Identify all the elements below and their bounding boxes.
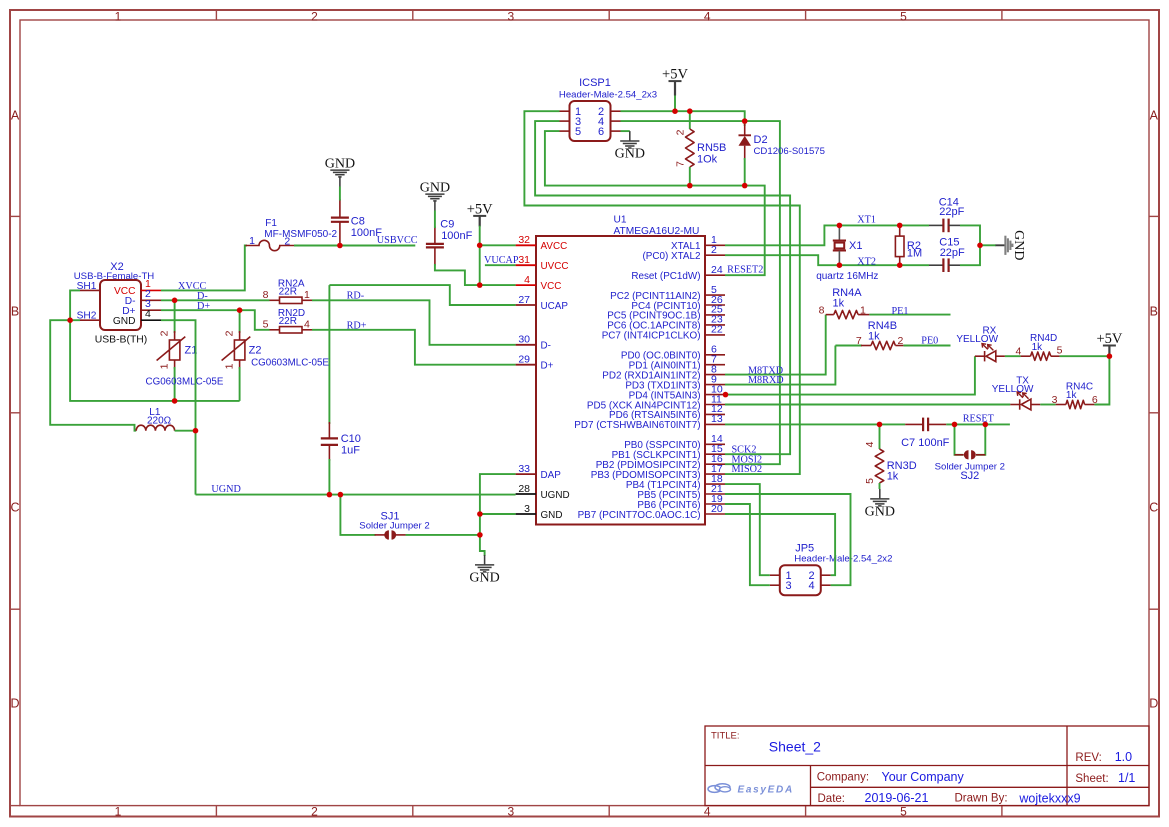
wire shield down to varistor bottoms <box>70 320 240 401</box>
wire XTAL1 to XT1 <box>725 225 929 245</box>
svg-text:D: D <box>1149 697 1158 711</box>
capacitor C15 22pF <box>929 236 965 272</box>
connector X2 USB-B-Female-TH body <box>100 280 141 330</box>
wire M8RXD net <box>725 346 835 385</box>
svg-text:2: 2 <box>224 330 236 336</box>
svg-text:MF-MSMF050-2: MF-MSMF050-2 <box>264 229 337 240</box>
U1 pin 18 PB4 (T1PCINT4) <box>626 473 725 491</box>
wire XT right bracket <box>960 225 980 265</box>
wire XTAL2 to XT2 <box>725 255 929 265</box>
svg-text:4: 4 <box>1015 345 1021 357</box>
svg-text:2: 2 <box>159 330 171 336</box>
ground GND at ICSP pin6 <box>620 131 639 148</box>
svg-text:USB-B(TH): USB-B(TH) <box>95 335 148 346</box>
svg-text:5: 5 <box>900 804 907 818</box>
svg-text:2: 2 <box>898 335 904 347</box>
wire PD5 to TX led <box>725 404 1010 406</box>
svg-text:quartz 16MHz: quartz 16MHz <box>816 271 878 282</box>
svg-text:3: 3 <box>524 503 530 515</box>
svg-text:1: 1 <box>115 10 122 24</box>
U1 pin 1 XTAL1 <box>671 234 725 252</box>
svg-text:2: 2 <box>311 10 318 24</box>
wire SJ1 to GND pin <box>406 534 480 536</box>
wire +5V down to RN4C <box>1094 356 1109 404</box>
X2 pin 1 VCC <box>114 278 161 297</box>
svg-text:A: A <box>1150 109 1159 123</box>
node D+/Z2 junction <box>237 307 243 313</box>
title block frame <box>705 726 1149 806</box>
svg-text:Sheet_2: Sheet_2 <box>769 739 821 755</box>
wire ICSP1 pin1 MISO loop <box>524 111 799 474</box>
wire RESET net right of C7 <box>946 423 1010 425</box>
U1 pin 30 D- <box>516 334 551 352</box>
svg-text:ATMEGA16U2-MU: ATMEGA16U2-MU <box>614 226 700 237</box>
node UGND/SJ1 junction <box>338 492 344 498</box>
svg-text:C8: C8 <box>351 216 365 228</box>
wire AVCC <box>480 244 516 246</box>
wire M8TXD net <box>725 315 826 375</box>
svg-text:27: 27 <box>518 294 530 306</box>
svg-text:6: 6 <box>1092 394 1098 406</box>
svg-text:4: 4 <box>704 804 711 818</box>
svg-text:VUCAP: VUCAP <box>484 255 519 266</box>
U1 pin 17 PB3 (PDOMISOPCINT3) <box>591 463 725 481</box>
svg-text:3: 3 <box>508 10 515 24</box>
svg-text:A: A <box>11 109 20 123</box>
U1 pin 26 PC4 (PCINT10) <box>631 294 725 312</box>
X2 pin 3 D+ <box>122 298 161 317</box>
wire C8 to GND <box>339 187 341 201</box>
capacitor C9 100nF <box>426 219 473 266</box>
resistor RN5B 10k <box>675 111 727 185</box>
U1 pin 25 PC5 (PCINT9OC.1B) <box>607 304 725 322</box>
svg-text:8: 8 <box>819 304 825 316</box>
svg-text:5: 5 <box>900 10 907 24</box>
LED RX YELLOW <box>956 326 1005 362</box>
svg-text:8: 8 <box>263 289 269 301</box>
wire UVCC stub <box>485 264 516 266</box>
svg-text:22pF: 22pF <box>939 206 964 218</box>
svg-text:MISO2: MISO2 <box>732 464 763 475</box>
node +5V RN4D junction <box>1107 353 1113 359</box>
svg-text:UVCC: UVCC <box>541 261 569 272</box>
node R2 bottom junction <box>897 262 903 268</box>
JP5 pin 2 <box>809 570 831 582</box>
ICSP1 pin 6 <box>598 126 621 138</box>
svg-text:100nF: 100nF <box>441 230 472 242</box>
wire ICSP1 pin4 MOSI row <box>621 120 745 122</box>
svg-text:4: 4 <box>809 580 815 592</box>
svg-text:USBVCC: USBVCC <box>377 235 418 246</box>
crystal X1 quartz 16MHz <box>816 225 878 282</box>
svg-text:RN5B: RN5B <box>697 142 726 154</box>
wire ICSP1 pin3 SCK loop <box>535 121 790 454</box>
svg-text:X1: X1 <box>849 240 862 252</box>
svg-text:2: 2 <box>711 244 717 256</box>
node SJ1 right junction <box>477 532 483 538</box>
svg-text:3: 3 <box>508 804 515 818</box>
U1 pin 29 D+ <box>516 354 554 372</box>
svg-text:1Ok: 1Ok <box>697 154 718 166</box>
svg-text:4: 4 <box>864 441 876 447</box>
svg-text:220Ω: 220Ω <box>147 416 172 427</box>
wire UGND net <box>196 494 516 496</box>
svg-text:29: 29 <box>518 354 530 366</box>
svg-text:1k: 1k <box>833 298 845 310</box>
IC U1 ATMEGA16U2-MU body <box>536 236 705 525</box>
svg-text:PD7 (CTSHWBAIN6T0INT7): PD7 (CTSHWBAIN6T0INT7) <box>574 420 700 431</box>
ground GND above C9 <box>425 194 444 210</box>
svg-text:GND: GND <box>615 146 645 161</box>
svg-text:RESET2: RESET2 <box>727 264 763 275</box>
svg-text:GND: GND <box>1011 230 1026 260</box>
wire MOSI to PB2 <box>725 121 780 464</box>
node L1 junction <box>193 428 199 434</box>
svg-text:1k: 1k <box>887 470 899 482</box>
node RN5B bottom RESET junction <box>687 183 693 189</box>
svg-text:2019-06-21: 2019-06-21 <box>865 791 929 805</box>
svg-text:C7 100nF: C7 100nF <box>901 437 950 449</box>
svg-text:YELLOW: YELLOW <box>992 384 1034 395</box>
wire X2 GND to L1/UGND <box>161 320 196 494</box>
wire C9 to GND <box>434 211 436 229</box>
U1 pin 24 Reset (PC1dW) <box>631 264 725 282</box>
wire PB7 to JP5 pin2 <box>725 514 835 575</box>
node X1 bottom junction <box>837 262 843 268</box>
svg-text:B: B <box>11 305 19 319</box>
wire PD4 to RX led <box>725 356 975 394</box>
resistor network RN2D 22R <box>263 308 312 333</box>
svg-text:28: 28 <box>518 483 530 495</box>
svg-text:D: D <box>10 697 19 711</box>
svg-text:2: 2 <box>311 804 318 818</box>
svg-text:24: 24 <box>711 264 723 276</box>
ICSP1 pin 5 <box>560 126 582 138</box>
svg-text:AVCC: AVCC <box>541 241 568 252</box>
svg-text:5: 5 <box>1057 345 1063 357</box>
wire PB6 to JP5 pin3 <box>725 504 770 585</box>
U1 pin 2 (PC0) XTAL2 <box>643 244 726 262</box>
node RN5B top junction <box>687 108 693 114</box>
svg-text:C: C <box>1149 501 1158 515</box>
node RN3D junction <box>877 422 883 428</box>
U1 pin 28 UGND <box>516 483 570 501</box>
resistor RN3D 1k <box>864 424 917 489</box>
svg-text:F1: F1 <box>265 218 277 229</box>
wire RN4D to +5V <box>1060 355 1110 357</box>
EasyEDA logo <box>708 784 794 796</box>
svg-text:1k: 1k <box>868 330 880 342</box>
resistor network RN2A 22R <box>263 279 312 304</box>
X2 pin 2 D- <box>125 288 161 307</box>
capacitor C10 1uF <box>321 422 361 461</box>
svg-text:TITLE:: TITLE: <box>711 731 740 742</box>
svg-text:DAP: DAP <box>541 470 562 481</box>
svg-text:Sheet:: Sheet: <box>1075 773 1108 785</box>
wire DAP to GND net vertical <box>480 474 516 556</box>
U1 pin 7 PD1 (AIN0INT1) <box>629 354 725 372</box>
svg-text:2: 2 <box>284 235 290 247</box>
svg-text:1M: 1M <box>907 248 922 260</box>
svg-text:SJ2: SJ2 <box>960 470 979 482</box>
svg-text:D-: D- <box>541 341 551 352</box>
U1 pin 32 AVCC <box>516 234 568 252</box>
node Z1 bottom junction <box>172 398 178 404</box>
solder jumper SJ1 <box>359 510 429 539</box>
wire +5V stem to row <box>674 96 676 112</box>
svg-text:UCAP: UCAP <box>541 301 569 312</box>
svg-text:4: 4 <box>145 308 151 320</box>
U1 pin 10 PD4 (INT5AIN3) <box>629 383 725 401</box>
wire RD- net <box>312 300 516 345</box>
wire PD7 DTR net <box>725 423 905 425</box>
U1 pin 5 PC2 (PCINT11AIN2) <box>610 284 725 302</box>
U1 pin 4 VCC <box>516 274 562 292</box>
svg-text:(PC0) XTAL2: (PC0) XTAL2 <box>643 251 701 262</box>
wire PE0 net <box>903 345 950 347</box>
fuse F1 MF-MSMF050-2 <box>245 218 337 250</box>
wire GND pin <box>480 513 516 515</box>
svg-text:D+: D+ <box>197 301 210 312</box>
svg-text:1k: 1k <box>1066 390 1078 401</box>
ICSP1 pin 1 <box>560 106 582 118</box>
svg-text:U1: U1 <box>614 215 627 226</box>
node +5V/ICSP pin2 junction <box>672 108 678 114</box>
svg-text:1: 1 <box>224 363 236 369</box>
svg-text:33: 33 <box>518 463 530 475</box>
JP5 pin 3 <box>770 580 792 592</box>
X2 pin 4 GND <box>113 308 161 327</box>
ground GND below SJ1 <box>475 555 494 572</box>
wire +5V to AVCC and VCC <box>479 226 481 285</box>
svg-text:1: 1 <box>860 304 866 316</box>
wire bracket to GND <box>980 244 996 246</box>
svg-text:22R: 22R <box>279 287 297 298</box>
U1 pin 33 DAP <box>516 463 562 481</box>
resistor RN4C 1k <box>1040 381 1098 408</box>
svg-text:CG0603MLC-05E: CG0603MLC-05E <box>251 358 329 369</box>
wire D- net <box>161 299 270 301</box>
svg-text:Company:: Company: <box>817 772 869 784</box>
svg-text:YELLOW: YELLOW <box>956 334 998 345</box>
ICSP1 pin 2 <box>598 106 621 118</box>
node D2 bottom RESET junction <box>742 183 748 189</box>
JP5 pin 1 <box>770 570 792 582</box>
wire XVCC net <box>161 246 247 291</box>
svg-text:1: 1 <box>304 289 310 301</box>
svg-text:7: 7 <box>856 335 862 347</box>
svg-text:wojtekxxx9: wojtekxxx9 <box>1018 791 1080 805</box>
svg-text:4: 4 <box>524 274 530 286</box>
U1 pin 21 PB5 (PCINT5) <box>637 483 725 501</box>
U1 pin 27 UCAP <box>516 294 569 312</box>
U1 pin 20 PB7 (PCINT7OC.0AOC.1C) <box>578 503 725 521</box>
U1 pin 19 PB6 (PCINT6) <box>637 493 725 511</box>
inductor L1 220 ohm <box>136 407 174 431</box>
node UGND/C10 junction <box>327 492 333 498</box>
node SJ2 right junction <box>983 422 989 428</box>
svg-text:Date:: Date: <box>818 793 846 805</box>
svg-text:UGND: UGND <box>541 490 570 501</box>
wire shield to L1 left <box>50 320 136 431</box>
node +5V/AVCC junction <box>477 243 483 249</box>
svg-text:VCC: VCC <box>541 281 562 292</box>
svg-text:RD-: RD- <box>347 291 365 302</box>
svg-text:Reset (PC1dW): Reset (PC1dW) <box>631 271 700 282</box>
varistor Z1 CG0603MLC-05E <box>146 300 224 401</box>
svg-text:Solder Jumper 2: Solder Jumper 2 <box>359 521 429 532</box>
svg-text:RD+: RD+ <box>347 320 367 331</box>
svg-text:GND: GND <box>325 156 355 171</box>
U1 pin 14 PB0 (SSPCINT0) <box>624 433 725 451</box>
svg-text:Header-Male-2.54_2x2: Header-Male-2.54_2x2 <box>794 554 892 565</box>
node C8/F1 junction <box>337 243 343 249</box>
capacitor C14 22pF <box>929 196 965 232</box>
svg-text:C: C <box>10 501 19 515</box>
ICSP1 pin 3 <box>560 116 582 128</box>
ground GND right of crystal <box>996 244 1005 246</box>
svg-text:PE1: PE1 <box>892 306 909 317</box>
node R2 top junction <box>897 223 903 229</box>
svg-text:XT2: XT2 <box>857 256 876 267</box>
svg-text:20: 20 <box>711 503 723 515</box>
svg-text:1.0: 1.0 <box>1115 750 1132 764</box>
svg-text:7: 7 <box>675 161 687 167</box>
svg-text:Z2: Z2 <box>249 344 262 356</box>
svg-text:EasyEDA: EasyEDA <box>738 785 794 796</box>
svg-text:5: 5 <box>263 319 269 331</box>
U1 pin 31 UVCC <box>516 254 569 272</box>
solder jumper SJ2 <box>935 424 1005 482</box>
svg-text:D2: D2 <box>754 134 768 146</box>
svg-text:UGND: UGND <box>211 484 240 495</box>
U1 pin 15 PB1 (SCLKPCINT1) <box>612 443 725 461</box>
svg-text:3: 3 <box>786 580 792 592</box>
node bracket GND junction <box>977 243 983 249</box>
svg-text:22pF: 22pF <box>940 247 965 259</box>
svg-text:31: 31 <box>518 254 530 266</box>
svg-text:XT1: XT1 <box>857 215 876 226</box>
svg-text:Header-Male-2.54_2x3: Header-Male-2.54_2x3 <box>559 90 657 101</box>
node SJ2 left junction <box>952 422 958 428</box>
varistor Z2 CG0603MLC-05E <box>222 310 330 401</box>
resistor R2 1M <box>895 225 922 265</box>
U1 pin 13 PD7 (CTSHWBAIN6T0INT7) <box>574 413 725 431</box>
resistor RN4D 1k <box>1005 333 1063 360</box>
svg-text:B: B <box>1150 305 1158 319</box>
svg-text:1/1: 1/1 <box>1118 771 1135 785</box>
svg-text:13: 13 <box>711 413 723 425</box>
node D2 top junction <box>742 118 748 124</box>
connector JP5 Header-Male-2.54_2x2 body <box>780 565 821 595</box>
node SH2 junction <box>67 317 73 323</box>
svg-text:5: 5 <box>575 126 581 138</box>
U1 pin 9 PD3 (TXD1INT3) <box>625 373 725 391</box>
U1 pin 12 PD6 (RTSAIN5INT6) <box>609 403 725 421</box>
svg-text:4: 4 <box>304 319 310 331</box>
node VCC junction <box>477 282 483 288</box>
svg-text:D+: D+ <box>541 361 554 372</box>
connector ICSP1 Header-Male-2.54_2x3 body <box>570 101 611 141</box>
U1 pin 22 PC7 (INT4ICP1CLKO) <box>602 324 725 342</box>
wire C9 to VCC row <box>435 264 516 285</box>
node PD4 pin junction <box>723 392 729 398</box>
svg-text:100nF: 100nF <box>351 227 382 239</box>
LED TX YELLOW <box>992 376 1041 410</box>
svg-text:1k: 1k <box>1032 342 1044 353</box>
U1 pin 3 GND <box>516 503 563 521</box>
svg-text:22: 22 <box>711 324 723 336</box>
U1 pin 11 PD5 (XCK AIN4PCINT12) <box>587 393 725 411</box>
svg-text:Your Company: Your Company <box>882 770 965 784</box>
wire L1 right to junction <box>175 430 196 432</box>
svg-text:GND: GND <box>420 180 450 195</box>
svg-text:32: 32 <box>518 234 530 246</box>
svg-text:Drawn By:: Drawn By: <box>955 792 1008 804</box>
diode D2 CD1206-S01575 <box>739 121 825 186</box>
svg-text:1: 1 <box>115 804 122 818</box>
node D-/Z1 junction <box>172 298 178 304</box>
node GND pin junction <box>477 511 483 517</box>
svg-text:PB7 (PCINT7OC.0AOC.1C): PB7 (PCINT7OC.0AOC.1C) <box>578 510 701 521</box>
svg-text:CD1206-S01575: CD1206-S01575 <box>754 146 825 157</box>
X2 pin SH1 <box>77 281 100 292</box>
svg-text:30: 30 <box>518 334 530 346</box>
svg-text:3: 3 <box>1052 394 1058 406</box>
resistor RN4B 1k <box>835 320 903 350</box>
svg-text:RESET: RESET <box>963 414 995 425</box>
svg-text:4: 4 <box>704 10 711 24</box>
svg-text:CG0603MLC-05E: CG0603MLC-05E <box>146 377 224 388</box>
svg-text:2: 2 <box>675 129 687 135</box>
wire USBVCC net <box>294 245 415 247</box>
svg-text:GND: GND <box>865 504 895 519</box>
wire UCAP net <box>329 285 515 305</box>
svg-text:PE0: PE0 <box>921 336 938 347</box>
ground GND above C8 <box>330 170 349 186</box>
U1 pin 6 PD0 (OC.0BINT0) <box>621 344 725 362</box>
wire UCAP vertical to C10 <box>328 285 330 424</box>
wire PB4 to JP5 pin1 <box>725 484 770 575</box>
svg-text:GND: GND <box>113 316 136 327</box>
wire PB5 to JP5 pin4 <box>725 494 851 585</box>
svg-text:1: 1 <box>249 235 255 247</box>
svg-text:PC7 (INT4ICP1CLKO): PC7 (INT4ICP1CLKO) <box>602 331 701 342</box>
svg-text:XVCC: XVCC <box>178 281 207 292</box>
svg-text:GND: GND <box>469 570 499 585</box>
X2 pin SH2 <box>77 311 100 322</box>
svg-text:5: 5 <box>864 478 876 484</box>
wire ICSP1 pin2 +5V row <box>621 111 745 121</box>
wire C10 to UGND <box>328 459 330 495</box>
U1 pin 16 PB2 (PDIMOSIPCINT2) <box>596 453 725 471</box>
wire RD+ net <box>312 330 516 365</box>
ICSP1 pin 4 <box>598 116 621 128</box>
node X1 top junction <box>837 223 843 229</box>
resistor RN4A 1k <box>819 287 870 319</box>
wire PE1 net <box>869 314 950 316</box>
capacitor C8 100nF <box>331 199 382 246</box>
wire SJ1 branch <box>340 495 375 535</box>
capacitor C7 100nF <box>901 418 950 450</box>
U1 pin 8 PD2 (RXD1AIN1INT2) <box>602 363 725 381</box>
svg-text:GND: GND <box>541 510 563 521</box>
svg-text:C10: C10 <box>341 433 361 445</box>
svg-text:ICSP1: ICSP1 <box>579 77 611 89</box>
svg-text:C9: C9 <box>440 219 454 231</box>
svg-text:6: 6 <box>598 126 604 138</box>
ground GND below RN3D <box>870 489 889 506</box>
